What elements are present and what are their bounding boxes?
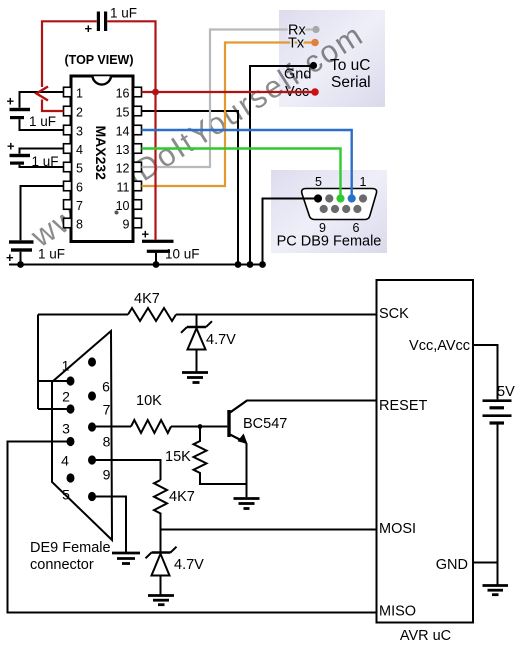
resistor R3 15K [194, 427, 247, 485]
svg-text:5V: 5V [497, 384, 515, 400]
svg-text:1 uF: 1 uF [110, 6, 137, 21]
svg-text:To uC: To uC [330, 57, 371, 74]
svg-text:3: 3 [76, 125, 83, 139]
wire battery to ground [497, 425, 499, 586]
svg-text:4.7V: 4.7V [206, 332, 236, 348]
wire red to pin2 [42, 100, 64, 112]
wire red C1 right to C5 [107, 21, 155, 239]
wire pin15 to bus [142, 111, 239, 265]
wire 10K to base [171, 426, 227, 428]
svg-text:13: 13 [116, 143, 130, 157]
wire C2 to pin3 [20, 119, 64, 130]
svg-text:3: 3 [62, 421, 70, 437]
svg-text:10K: 10K [136, 393, 162, 409]
U1 pin numbers 1-8 [76, 87, 83, 232]
svg-text:+: + [85, 21, 93, 36]
svg-text:GND: GND [436, 557, 468, 573]
svg-text:SCK: SCK [379, 306, 409, 322]
wire pin1 to C2 [20, 92, 64, 108]
svg-text:16: 16 [116, 87, 130, 101]
svg-text:Gnd: Gnd [284, 67, 311, 83]
svg-text:PC DB9 Female: PC DB9 Female [277, 234, 382, 250]
svg-text:1 uF: 1 uF [32, 154, 59, 169]
svg-text:15K: 15K [165, 449, 191, 465]
junction dots ground bus [17, 261, 266, 268]
svg-text:15: 15 [116, 106, 130, 120]
node dots uC serial [312, 26, 319, 33]
wire DE9 pin9 to R4 [92, 460, 161, 480]
svg-text:5: 5 [76, 162, 83, 176]
svg-text:DE9 Female: DE9 Female [30, 540, 111, 556]
U1 notch [93, 76, 112, 84]
wire DE9 pins 1,2 riser [38, 315, 71, 410]
ground symbol Q1 [234, 499, 260, 509]
junction base/15K [198, 424, 203, 429]
svg-text:Tx: Tx [288, 36, 305, 52]
svg-text:MOSI: MOSI [379, 521, 416, 537]
svg-text:4.7V: 4.7V [174, 557, 204, 573]
U1 pin10 marker dot [115, 211, 119, 215]
ground symbol battery [483, 586, 509, 595]
wire gray pin12 to Rx [142, 30, 314, 168]
svg-text:7: 7 [76, 199, 83, 213]
svg-text:10 uF: 10 uF [165, 247, 200, 262]
svg-text:Serial: Serial [331, 74, 371, 91]
wire green pin13 to DB9 [142, 149, 341, 199]
zener D1 4.7V [181, 315, 212, 372]
wire DE9 pin5 to ground [92, 497, 126, 553]
capacitor C4 1uF plates (pin6) [9, 240, 34, 243]
svg-text:5: 5 [62, 487, 70, 503]
svg-text:4: 4 [76, 143, 83, 157]
DE9 pin number labels [61, 358, 111, 503]
wire red pin16 to Vcc [142, 91, 316, 93]
svg-text:2: 2 [76, 106, 83, 120]
wire blue pin14 to DB9 [142, 130, 352, 199]
svg-text:1: 1 [360, 175, 367, 189]
svg-text:MISO: MISO [379, 604, 416, 620]
DE9 connector shell [52, 331, 112, 540]
svg-text:4K7: 4K7 [134, 291, 160, 307]
wire SCK left segment [38, 314, 128, 316]
U1 pin stubs left [64, 87, 72, 228]
zener D2 4.7V [146, 530, 177, 596]
svg-text:+: + [7, 94, 15, 109]
svg-text:+: + [7, 139, 15, 154]
svg-text:+: + [6, 250, 14, 265]
DB9 connector shell (PC side) [302, 189, 377, 220]
svg-text:(TOP VIEW): (TOP VIEW) [65, 53, 134, 67]
svg-text:RESET: RESET [379, 398, 427, 414]
svg-text:connector: connector [30, 557, 94, 573]
ground symbol DE9 [112, 553, 140, 564]
junction red [152, 89, 159, 96]
transistor Q1 BC547 [227, 401, 247, 445]
wire C4 to ground bus [20, 252, 22, 265]
capacitor C3 1uF plates (pins4-5) [10, 154, 31, 157]
svg-text:8: 8 [76, 218, 83, 232]
DB9 holes [314, 194, 367, 213]
node box PC DB9 Female [271, 170, 387, 253]
wire Vcc to battery [473, 345, 498, 399]
svg-text:8: 8 [103, 434, 111, 450]
svg-text:14: 14 [116, 125, 130, 139]
wire red C1 left [42, 21, 97, 87]
ground symbol D1 [182, 373, 208, 383]
resistor R1 4K7 [128, 308, 176, 321]
wire C5 to ground bus [155, 253, 157, 265]
wire SCK right segment [176, 314, 377, 316]
wire base 10K net [92, 426, 131, 428]
wire emitter down [246, 443, 248, 497]
battery BT1 5V [483, 401, 512, 423]
DE9 pins left column [67, 376, 75, 482]
wire red overlay Vcc strike [285, 91, 311, 93]
wire pin4 to C3 [20, 149, 64, 154]
svg-text:+: + [142, 227, 150, 242]
wire GND to battery [473, 562, 498, 564]
svg-text:9: 9 [123, 218, 130, 232]
svg-text:1 uF: 1 uF [38, 247, 65, 262]
svg-text:7: 7 [103, 402, 111, 418]
svg-text:1: 1 [62, 358, 70, 374]
U1 pin stubs right [134, 87, 142, 228]
svg-text:12: 12 [116, 162, 130, 176]
red chevron [37, 87, 49, 101]
svg-text:5: 5 [315, 175, 322, 189]
wire pin6 to C4 [21, 186, 64, 240]
IC U2 AVR box [377, 280, 474, 623]
wire MOSI net [161, 529, 377, 531]
ground bus wire [9, 264, 263, 266]
ground symbol D2 [148, 596, 174, 605]
wire MISO net [8, 442, 377, 613]
svg-text:6: 6 [102, 379, 110, 395]
capacitor C5 10uF plates [142, 240, 174, 243]
wire C3 to pin5 [20, 165, 64, 167]
resistor R2 10K [131, 420, 171, 433]
svg-text:MAX232: MAX232 [93, 126, 109, 181]
capacitor C1 1uF plates (top) [97, 12, 100, 32]
op-amp U1 MAX232 body [71, 76, 133, 242]
svg-text:Vcc,AVcc: Vcc,AVcc [409, 338, 470, 354]
wire RESET net [230, 401, 377, 413]
wire DB9 pin5 to bus [263, 199, 319, 265]
svg-text:1 uF: 1 uF [29, 114, 56, 129]
wire Gnd dot to bus [250, 66, 311, 265]
U1 pin numbers 16-9 [116, 87, 130, 232]
svg-text:4: 4 [61, 453, 69, 469]
svg-text:9: 9 [103, 467, 111, 483]
resistor R4 4K7 [154, 480, 167, 530]
svg-text:4K7: 4K7 [169, 489, 195, 505]
capacitor C2 1uF plates (pins1-3) [10, 108, 31, 111]
svg-text:BC547: BC547 [243, 416, 287, 432]
svg-text:AVR uC: AVR uC [400, 628, 451, 644]
node box To uC Serial [279, 10, 385, 107]
svg-text:6: 6 [76, 181, 83, 195]
DE9 pins right column [88, 357, 96, 501]
wire orange pin11 to Tx [142, 43, 313, 187]
DB9 pin labels [315, 175, 367, 235]
svg-text:1: 1 [76, 87, 83, 101]
svg-text:11: 11 [117, 181, 130, 195]
svg-text:2: 2 [62, 389, 70, 405]
